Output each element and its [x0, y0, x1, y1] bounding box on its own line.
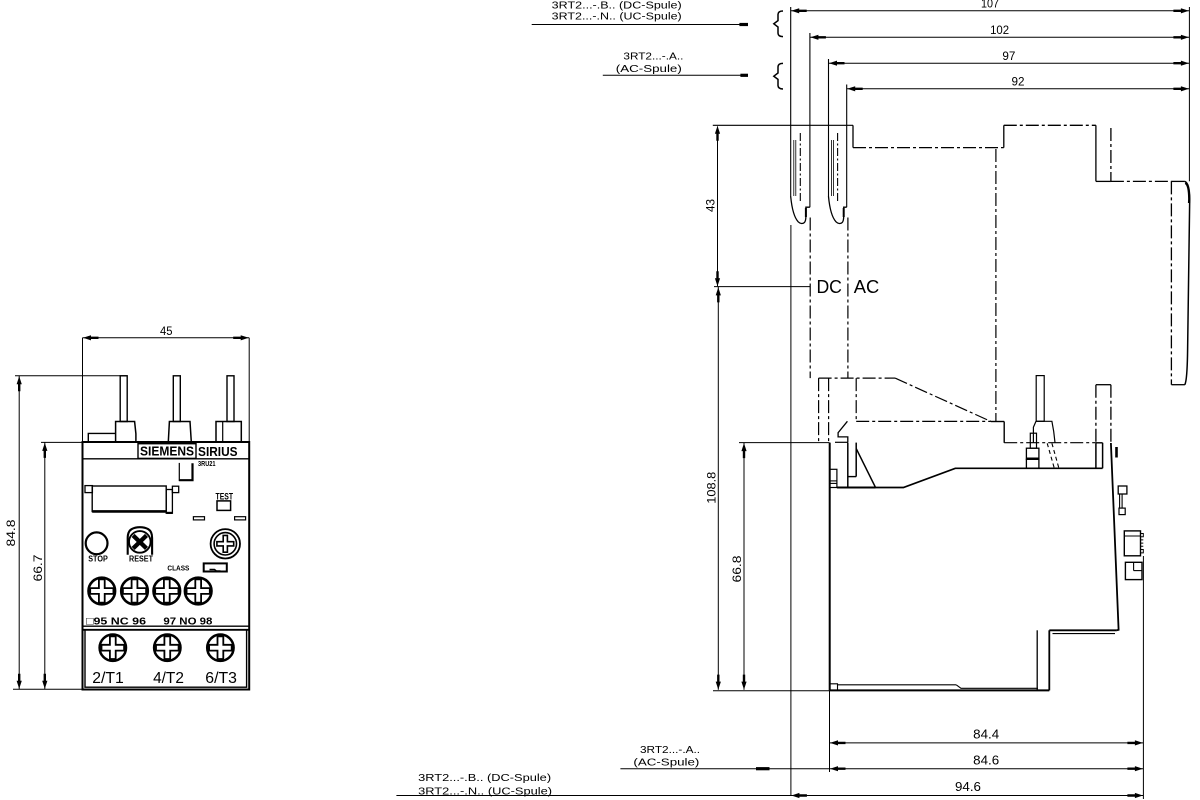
- svg-text:STOP: STOP: [88, 555, 108, 564]
- svg-text:3RT2...-.N.. (UC-Spule): 3RT2...-.N.. (UC-Spule): [552, 12, 682, 23]
- svg-text:66.8: 66.8: [730, 555, 744, 582]
- svg-text:□95 NC 96: □95 NC 96: [86, 615, 146, 627]
- svg-text:SIEMENS: SIEMENS: [140, 445, 194, 459]
- svg-text:84.4: 84.4: [973, 728, 999, 742]
- svg-text:94.6: 94.6: [955, 780, 981, 794]
- svg-text:SIRIUS: SIRIUS: [198, 444, 238, 459]
- svg-text:CLASS: CLASS: [167, 563, 189, 572]
- svg-text:2/T1: 2/T1: [92, 670, 124, 687]
- svg-text:TEST: TEST: [216, 491, 234, 501]
- svg-text:84.8: 84.8: [4, 519, 18, 546]
- svg-text:3RT2...-.B.. (DC-Spule): 3RT2...-.B.. (DC-Spule): [418, 773, 551, 784]
- svg-text:RESET: RESET: [129, 555, 153, 564]
- svg-text:97: 97: [1002, 51, 1015, 63]
- svg-text:102: 102: [990, 25, 1009, 37]
- svg-text:3RT2...-.N.. (UC-Spule): 3RT2...-.N.. (UC-Spule): [418, 787, 552, 798]
- svg-text:(AC-Spule): (AC-Spule): [633, 758, 699, 769]
- svg-text:66.7: 66.7: [31, 554, 45, 581]
- svg-text:3RT2...-.A..: 3RT2...-.A..: [640, 745, 700, 756]
- svg-text:3RT2...-.A..: 3RT2...-.A..: [623, 52, 683, 63]
- svg-text:97 NO 98: 97 NO 98: [163, 615, 212, 627]
- svg-text:6/T3: 6/T3: [205, 670, 237, 687]
- svg-text:108.8: 108.8: [704, 471, 718, 503]
- svg-text:43: 43: [704, 199, 718, 212]
- svg-text:4/T2: 4/T2: [153, 670, 184, 687]
- svg-text:84.6: 84.6: [973, 753, 999, 767]
- svg-text:107: 107: [981, 0, 999, 11]
- svg-text:AC: AC: [854, 277, 880, 297]
- svg-text:(AC-Spule): (AC-Spule): [616, 64, 682, 75]
- svg-text:92: 92: [1012, 77, 1025, 89]
- svg-text:DC: DC: [816, 277, 842, 297]
- svg-text:3RU21: 3RU21: [198, 459, 216, 468]
- svg-text:3RT2...-.B.. (DC-Spule): 3RT2...-.B.. (DC-Spule): [552, 0, 682, 11]
- svg-text:45: 45: [160, 326, 173, 338]
